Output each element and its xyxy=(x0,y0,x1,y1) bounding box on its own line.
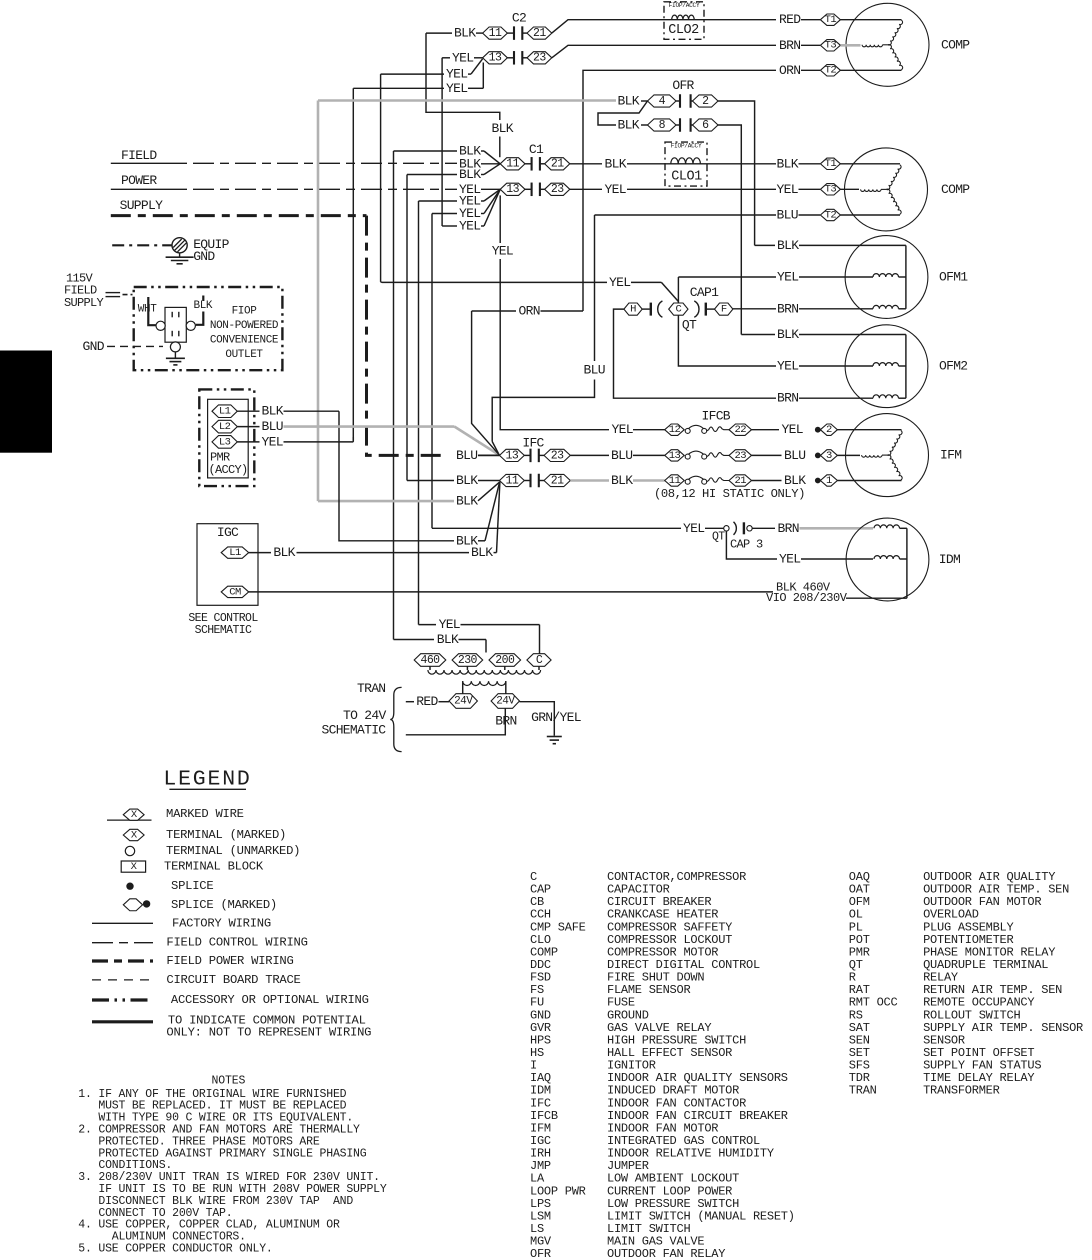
svg-text:SUPPLY: SUPPLY xyxy=(120,198,164,213)
svg-text:TRAN: TRAN xyxy=(357,681,385,696)
svg-text:BLK: BLK xyxy=(777,238,799,253)
terminal L1 PMR xyxy=(212,405,237,418)
svg-text:L2: L2 xyxy=(219,421,231,433)
svg-text:BLU: BLU xyxy=(784,448,805,463)
svg-text:TO 24V: TO 24V xyxy=(343,708,387,723)
svg-text:11: 11 xyxy=(506,474,519,487)
svg-text:H: H xyxy=(630,304,636,316)
svg-text:11: 11 xyxy=(489,27,502,40)
svg-text:ORN: ORN xyxy=(779,63,800,78)
svg-text:BRN: BRN xyxy=(777,301,798,316)
outlet receptacle symbol xyxy=(165,307,186,342)
svg-text:OFM1: OFM1 xyxy=(939,270,968,285)
svg-text:CAP 3: CAP 3 xyxy=(730,538,763,552)
svg-text:BLK: BLK xyxy=(456,473,478,488)
svg-text:BLK: BLK xyxy=(273,545,295,560)
wire vertical C2-YEL3 down to PMR L3 xyxy=(352,88,354,441)
svg-text:460: 460 xyxy=(420,654,440,667)
wire BLK from PMR L1 to IFC-11 xyxy=(237,410,259,412)
wire IFC-21 to IFCB-11 (gray) xyxy=(570,479,609,482)
svg-text:BRN: BRN xyxy=(778,521,799,536)
wire OFR-6 to OFM2 BLK xyxy=(718,125,741,335)
svg-text:YEL: YEL xyxy=(777,359,798,374)
field control wiring line 1 xyxy=(111,162,187,164)
svg-text:BLU: BLU xyxy=(262,419,283,434)
wire CAP1 C terminal down to OFM2 YEL xyxy=(678,315,776,366)
svg-text:13: 13 xyxy=(489,52,502,65)
wire ORN from T2 node to IFC-13 xyxy=(472,310,516,312)
svg-text:GND: GND xyxy=(83,339,105,354)
svg-text:TERMINAL (UNMARKED): TERMINAL (UNMARKED) xyxy=(166,844,300,858)
legend splice symbol xyxy=(126,883,133,890)
legend terminal marked symbol xyxy=(123,829,144,840)
terminal L1 IGC xyxy=(221,547,249,558)
svg-text:FIELD POWER WIRING: FIELD POWER WIRING xyxy=(166,954,293,968)
wire BLU from COMP2 T2 down to IFC-13 xyxy=(595,214,777,216)
svg-text:BLK: BLK xyxy=(777,327,799,342)
svg-text:BRN: BRN xyxy=(495,714,516,729)
svg-text:FACTORY WIRING: FACTORY WIRING xyxy=(172,916,271,930)
svg-text:SPLICE: SPLICE xyxy=(171,879,213,893)
outlet ground xyxy=(174,352,176,358)
transformer TRAN secondary winding xyxy=(463,681,506,685)
svg-text:5. USE COPPER CONDUCTOR ONLY.: 5. USE COPPER CONDUCTOR ONLY. xyxy=(78,1243,272,1256)
svg-text:FIELD CONTROL WIRING: FIELD CONTROL WIRING xyxy=(166,936,307,950)
wire C1-21 BLK to CLO1 and COMP2 T1 xyxy=(570,163,602,165)
wire YEL from PMR L3 up to C2 xyxy=(237,441,259,443)
svg-text:IFM: IFM xyxy=(940,448,961,463)
indoor fan motor IFM xyxy=(846,414,929,497)
svg-text:SUPPLY: SUPPLY xyxy=(64,296,104,310)
svg-text:TERMINAL BLOCK: TERMINAL BLOCK xyxy=(164,860,264,874)
svg-text:YEL: YEL xyxy=(446,67,467,82)
svg-text:200: 200 xyxy=(495,654,515,667)
svg-text:RED: RED xyxy=(779,12,801,27)
svg-text:3: 3 xyxy=(826,450,832,462)
svg-text:23: 23 xyxy=(734,450,746,462)
svg-text:FIOP/ACCY: FIOP/ACCY xyxy=(671,143,702,150)
svg-text:BLK: BLK xyxy=(454,26,476,41)
svg-text:ORN: ORN xyxy=(519,304,540,319)
svg-text:BLU: BLU xyxy=(456,448,477,463)
svg-text:T3: T3 xyxy=(825,40,837,52)
svg-text:2: 2 xyxy=(826,424,832,436)
black margin block xyxy=(0,351,52,453)
svg-text:CIRCUIT BOARD TRACE: CIRCUIT BOARD TRACE xyxy=(166,973,300,987)
wire C1-13 bottom down to IFCB YEL row xyxy=(499,195,501,243)
svg-text:YEL: YEL xyxy=(605,182,626,197)
legend splice marked symbol xyxy=(123,899,142,911)
wire CAP1 H terminal to OFM2 BRN xyxy=(614,309,777,398)
wire jog OFR-4 to OFR-8 row xyxy=(598,101,648,125)
wire vertical from C2-BLK down to C1-11 node xyxy=(426,33,500,120)
svg-text:IGC: IGC xyxy=(217,525,239,540)
capacitor CAP 3 with QT at IDM xyxy=(432,527,681,529)
svg-text:BLK: BLK xyxy=(456,493,478,508)
svg-text:21: 21 xyxy=(734,475,746,487)
svg-text:BLK: BLK xyxy=(262,404,284,419)
svg-text:11: 11 xyxy=(506,158,519,171)
svg-text:C: C xyxy=(536,654,543,667)
svg-text:FIOP/ACCY: FIOP/ACCY xyxy=(669,2,700,9)
svg-text:BLK: BLK xyxy=(605,156,627,171)
svg-text:21: 21 xyxy=(551,158,564,171)
svg-text:BLK: BLK xyxy=(471,545,493,560)
svg-text:BLK: BLK xyxy=(618,94,640,109)
svg-text:24V: 24V xyxy=(496,695,515,707)
svg-text:BLK: BLK xyxy=(437,632,459,647)
svg-text:YEL: YEL xyxy=(609,275,630,290)
svg-text:TRANSFORMER: TRANSFORMER xyxy=(923,1084,1000,1098)
svg-text:NON-POWERED: NON-POWERED xyxy=(210,320,279,332)
field supply double line xyxy=(106,292,121,294)
svg-text:ACCESSORY OR OPTIONAL WIRING: ACCESSORY OR OPTIONAL WIRING xyxy=(171,993,369,1007)
transformer TRAN 24V terminals xyxy=(449,694,477,709)
induced draft motor IDM xyxy=(846,518,929,601)
svg-text:L1: L1 xyxy=(219,406,231,418)
svg-text:BLU: BLU xyxy=(611,448,632,463)
legend marked wire symbol xyxy=(107,819,152,821)
outdoor fan motor OFM2 xyxy=(845,325,928,408)
svg-text:NOTES: NOTES xyxy=(212,1075,246,1088)
svg-text:CLO2: CLO2 xyxy=(668,23,699,38)
svg-text:FIELD: FIELD xyxy=(121,148,157,163)
svg-text:YEL: YEL xyxy=(777,182,798,197)
wire C2-23 to COMP1 T3 line xyxy=(552,45,776,58)
legend factory wiring xyxy=(92,922,153,924)
svg-text:T1: T1 xyxy=(825,14,837,26)
svg-text:QT: QT xyxy=(682,318,697,333)
svg-text:13: 13 xyxy=(506,449,519,462)
svg-text:ONLY: NOT TO REPRESENT WIRING: ONLY: NOT TO REPRESENT WIRING xyxy=(166,1026,371,1040)
integrated gas control IGC box xyxy=(197,524,258,606)
svg-text:CLO1: CLO1 xyxy=(671,169,702,184)
contactor IFC contacts 13/23 xyxy=(500,449,525,461)
svg-text:IDM: IDM xyxy=(939,552,960,567)
common potential line (gray) to IFC-11 BLK xyxy=(318,500,454,503)
svg-text:4: 4 xyxy=(659,95,666,108)
wire vertical C1-YEL2 down to TRAN C tap xyxy=(418,201,420,625)
wire GRN/YEL to ground xyxy=(520,702,555,736)
svg-text:BLK: BLK xyxy=(777,156,799,171)
wire BLK from IGC L1 xyxy=(249,552,271,554)
svg-text:IFC: IFC xyxy=(522,436,544,451)
svg-text:L3: L3 xyxy=(219,436,231,448)
wire vertical C1-BLK3 down to IFC-11 row xyxy=(406,175,408,481)
svg-text:MARKED WIRE: MARKED WIRE xyxy=(166,807,244,821)
svg-text:CM: CM xyxy=(229,586,241,598)
svg-text:COMP: COMP xyxy=(941,182,970,197)
wire BLU (gray) from PMR L2 to IFC-13 xyxy=(237,426,259,428)
svg-text:CONVENIENCE: CONVENIENCE xyxy=(210,335,279,347)
legend terminal unmarked symbol xyxy=(125,846,134,855)
compressor motor COMP no.2 xyxy=(845,148,928,231)
svg-text:F: F xyxy=(721,304,727,316)
svg-text:BLK: BLK xyxy=(784,473,806,488)
svg-text:8: 8 xyxy=(659,119,666,132)
svg-text:LEGEND: LEGEND xyxy=(163,768,251,792)
svg-text:22: 22 xyxy=(734,424,746,436)
wire ORN from node to COMP1 T2 xyxy=(583,70,776,311)
relay coil CLO2 (FIOP/ACCY) xyxy=(664,2,704,40)
svg-text:COMP: COMP xyxy=(941,37,970,52)
wire CAP1 F terminal to OFM1 BRN xyxy=(733,308,776,310)
IFCB pole 11/21 BLK xyxy=(665,475,685,486)
svg-text:YEL: YEL xyxy=(439,617,460,632)
svg-text:OFR: OFR xyxy=(672,78,694,93)
svg-text:CAP1: CAP1 xyxy=(690,285,719,300)
svg-text:T2: T2 xyxy=(825,65,837,77)
svg-text:13: 13 xyxy=(669,450,681,462)
svg-text:SEE CONTROL: SEE CONTROL xyxy=(188,612,258,625)
svg-text:BLU: BLU xyxy=(584,363,605,378)
svg-text:21: 21 xyxy=(533,27,546,40)
svg-text:L1: L1 xyxy=(229,547,241,559)
svg-text:SCHEMATIC: SCHEMATIC xyxy=(322,722,387,737)
ground symbol at transformer xyxy=(547,736,562,738)
wire vertical C1-YEL3 down to CAP3 row xyxy=(431,214,433,529)
wire vertical C1-BLK1 down to TRAN 230 tap xyxy=(393,151,395,640)
svg-text:T2: T2 xyxy=(825,209,837,221)
relay coil CLO1 (FIOP/ACCY) xyxy=(665,142,707,186)
svg-text:GND: GND xyxy=(193,249,215,264)
wire CAP1 C terminal up to OFM1 YEL xyxy=(677,277,679,303)
wire C2-21 to CLO2 line xyxy=(552,20,776,33)
svg-text:6: 6 xyxy=(702,119,709,132)
field power wiring vertical to IFC BLU xyxy=(367,216,445,456)
wire IFC-23 to IFCB-13 xyxy=(570,454,609,456)
svg-text:VIO 208/230V: VIO 208/230V xyxy=(766,591,848,605)
svg-text:YEL: YEL xyxy=(782,422,803,437)
legend terminal block symbol xyxy=(121,861,145,872)
FIOP non-powered convenience outlet box xyxy=(134,287,283,370)
wire vertical C2-YEL1 down to C1-YEL4 xyxy=(441,58,443,226)
wire RED 24V xyxy=(406,701,414,703)
legend circuit board trace xyxy=(92,979,153,981)
wire C1-23 YEL to COMP2 T3 xyxy=(570,188,602,190)
svg-text:T3: T3 xyxy=(825,184,837,196)
svg-text:OFR: OFR xyxy=(530,1247,551,1260)
svg-text:YEL: YEL xyxy=(779,552,800,567)
field power wiring line 3 xyxy=(111,214,367,217)
svg-text:(ACCY): (ACCY) xyxy=(209,463,248,477)
common potential line (gray) vertical xyxy=(317,101,320,502)
legend accessory or optional wiring xyxy=(92,998,153,1001)
svg-text:YEL: YEL xyxy=(262,434,283,449)
svg-text:BLU: BLU xyxy=(777,208,798,223)
svg-text:SPLICE (MARKED): SPLICE (MARKED) xyxy=(171,898,277,912)
svg-text:YEL: YEL xyxy=(492,244,513,259)
svg-text:IFCB: IFCB xyxy=(702,409,731,424)
contactor IFC contacts 11/21 xyxy=(500,474,525,486)
terminal CM IGC xyxy=(221,586,249,597)
transformer TRAN primary taps xyxy=(414,654,446,667)
svg-text:C1: C1 xyxy=(529,142,544,157)
wire OFR-2 to OFM1 BLK xyxy=(718,101,755,245)
wire vertical C2-YEL2 down to CAP1 YEL row xyxy=(380,74,382,282)
svg-text:23: 23 xyxy=(551,449,564,462)
phase monitor relay PMR (ACCY) box xyxy=(199,389,254,486)
transformer TRAN primary winding xyxy=(429,666,431,670)
wire YEL to TRAN C tap xyxy=(419,624,437,626)
svg-text:OUTLET: OUTLET xyxy=(225,349,263,361)
legend common potential xyxy=(92,1020,153,1023)
svg-text:23: 23 xyxy=(551,183,564,196)
IFCB pole 13/23 BLU xyxy=(665,450,685,461)
svg-text:FIOP: FIOP xyxy=(232,306,258,318)
svg-text:OUTDOOR FAN RELAY: OUTDOOR FAN RELAY xyxy=(607,1247,725,1260)
svg-text:SCHEMATIC: SCHEMATIC xyxy=(195,624,252,637)
svg-text:T1: T1 xyxy=(825,158,837,170)
terminal L3 PMR xyxy=(212,436,237,449)
wire from IGC CM to IDM xyxy=(249,591,773,593)
svg-text:POWER: POWER xyxy=(121,173,157,188)
svg-text:TRAN: TRAN xyxy=(849,1084,877,1098)
svg-text:YEL: YEL xyxy=(612,422,633,437)
svg-text:BLK: BLK xyxy=(611,473,633,488)
svg-text:YEL: YEL xyxy=(452,50,473,65)
svg-text:BLK: BLK xyxy=(618,118,640,133)
wire BRN 24V return xyxy=(406,708,506,734)
svg-text:TERMINAL (MARKED): TERMINAL (MARKED) xyxy=(166,828,286,842)
outdoor fan motor OFM1 xyxy=(845,236,928,319)
svg-text:BRN: BRN xyxy=(779,38,800,53)
wire BLK to TRAN 230 tap xyxy=(394,639,435,641)
svg-text:11: 11 xyxy=(669,475,681,487)
svg-text:24V: 24V xyxy=(454,695,473,707)
compressor motor COMP no.1 xyxy=(846,3,929,86)
svg-text:23: 23 xyxy=(533,52,546,65)
svg-text:BRN: BRN xyxy=(777,391,798,406)
svg-text:C: C xyxy=(675,304,681,316)
contactor C2 contacts 13/23 xyxy=(483,52,508,64)
svg-text:GRN/YEL: GRN/YEL xyxy=(531,710,581,725)
contactor C1 contacts 13/23 xyxy=(500,183,525,195)
svg-text:OFM2: OFM2 xyxy=(939,359,967,374)
common potential line (gray) top horizontal xyxy=(318,99,616,102)
svg-text:YEL: YEL xyxy=(683,521,704,536)
field control wiring line 2 xyxy=(111,188,187,190)
svg-text:C2: C2 xyxy=(512,11,526,26)
svg-text:230: 230 xyxy=(458,654,478,667)
terminal L2 PMR xyxy=(212,420,237,433)
svg-text:2: 2 xyxy=(702,95,709,108)
svg-text:YEL: YEL xyxy=(446,81,467,96)
svg-text:RED: RED xyxy=(416,694,438,709)
svg-text:12: 12 xyxy=(669,424,681,436)
svg-text:YEL: YEL xyxy=(459,219,480,234)
wire CAP3 to IDM YEL xyxy=(726,531,777,559)
svg-text:BLK: BLK xyxy=(194,300,213,312)
svg-text:YEL: YEL xyxy=(777,270,798,285)
legend field power wiring xyxy=(92,959,153,962)
svg-text:BLK: BLK xyxy=(459,167,481,182)
svg-text:QT: QT xyxy=(712,530,725,543)
svg-text:(08,12 HI STATIC ONLY): (08,12 HI STATIC ONLY) xyxy=(654,487,805,501)
legend field control wiring xyxy=(92,942,153,944)
equipment ground EQUIP GND xyxy=(112,244,172,246)
svg-text:13: 13 xyxy=(506,183,519,196)
svg-text:1: 1 xyxy=(826,475,832,487)
svg-text:21: 21 xyxy=(551,474,564,487)
svg-text:BLK: BLK xyxy=(492,121,514,136)
